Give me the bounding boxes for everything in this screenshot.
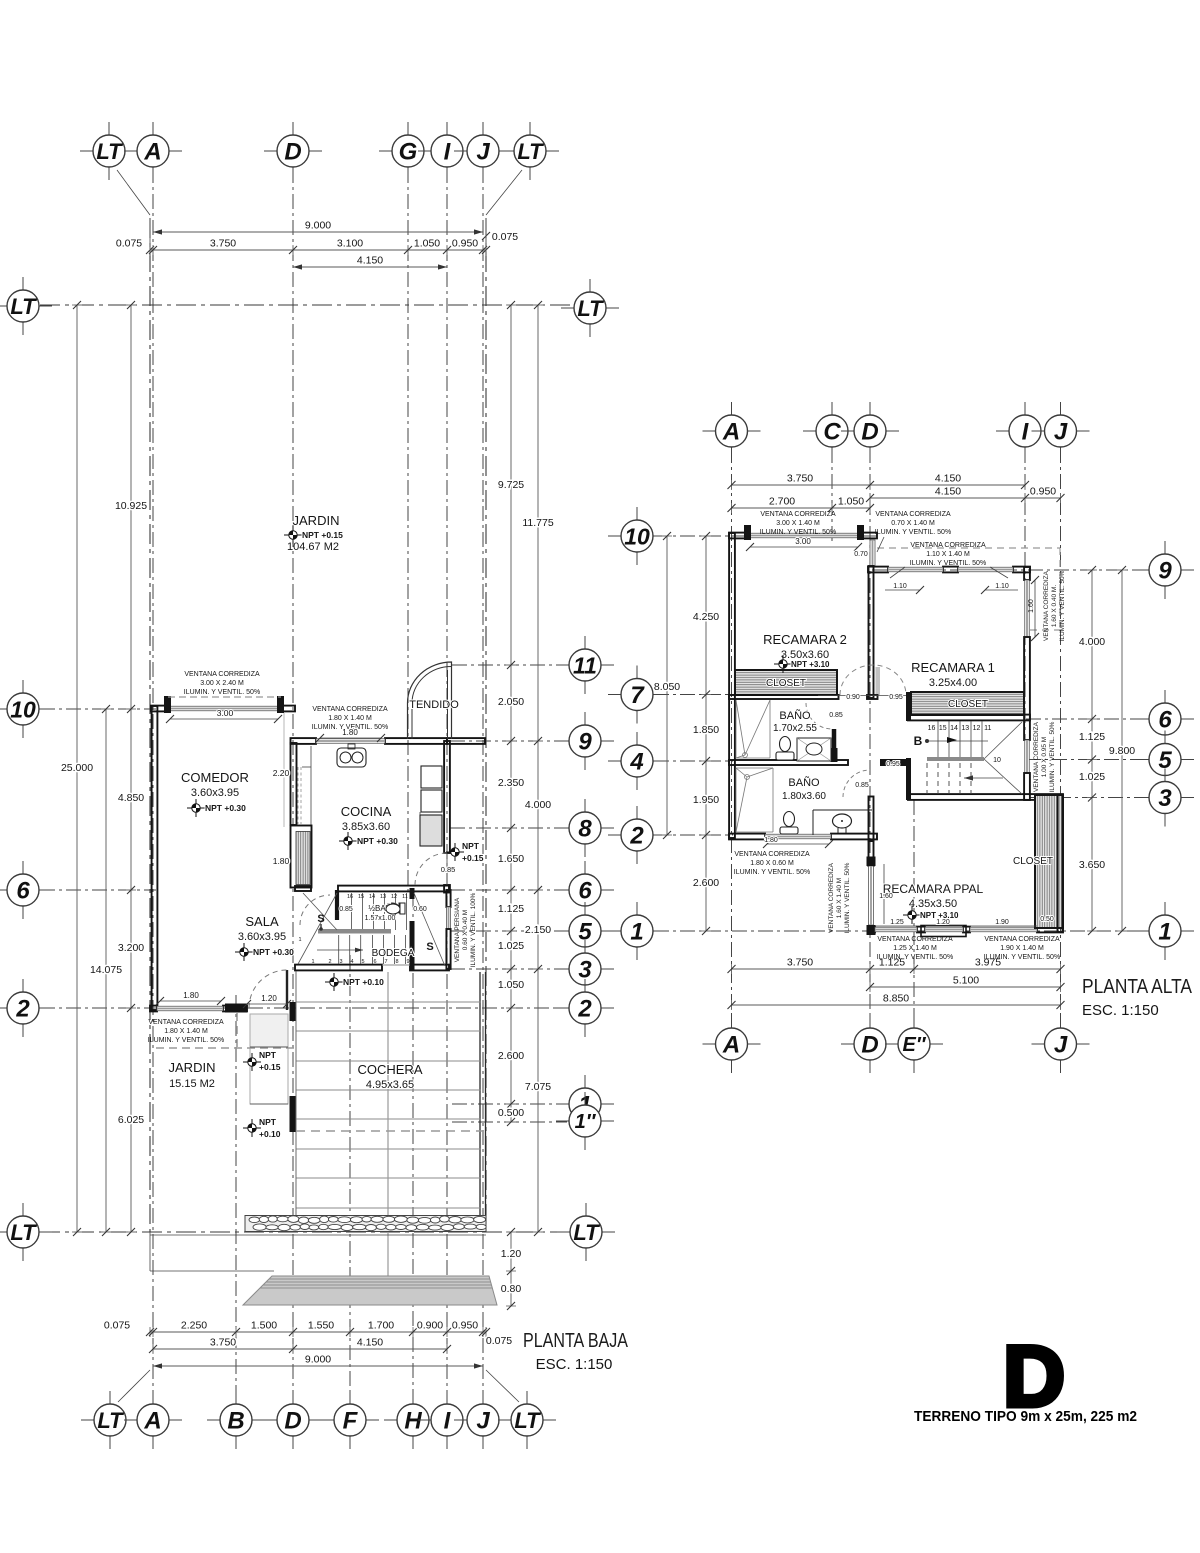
svg-text:1.20: 1.20 [936, 919, 950, 926]
svg-text:1.80: 1.80 [183, 991, 199, 1000]
grid bubble LT top-left (PB) [108, 122, 110, 138]
svg-text:VENTANA CORREDIZA: VENTANA CORREDIZA [734, 851, 810, 858]
bodega cross brace (PB) [414, 893, 445, 966]
svg-text:7: 7 [384, 959, 387, 965]
svg-text:VENTANA CORREDIZA: VENTANA CORREDIZA [312, 706, 388, 713]
grid bubble 1 right (PB) [584, 1075, 586, 1091]
grid bubble 2 left (PA) [636, 806, 638, 822]
svg-text:1.80 X 0.60 M: 1.80 X 0.60 M [750, 860, 794, 867]
svg-text:NPT: NPT [259, 1050, 277, 1060]
wall cocina east at I (PB) [444, 741, 450, 853]
grid row 10 (PA) [654, 535, 880, 537]
svg-text:RECAMARA 1: RECAMARA 1 [911, 660, 995, 675]
dimension 9.000 bottom (PB) [153, 1365, 483, 1367]
svg-text:11: 11 [984, 725, 991, 732]
svg-text:2.700: 2.700 [769, 496, 795, 508]
svg-text:D: D [861, 1032, 878, 1059]
svg-text:13: 13 [961, 725, 969, 732]
grid row 4 (PA) [654, 760, 733, 762]
grid axis D (PB) [292, 168, 294, 1404]
lot boundary left (PB) [149, 218, 151, 1232]
dimension chain left outer (PA) [666, 536, 668, 835]
svg-text:BODEGA: BODEGA [372, 948, 415, 959]
svg-text:1.050: 1.050 [838, 496, 864, 508]
svg-text:1.80: 1.80 [764, 837, 778, 844]
grid bubble F bottom (PB) [349, 1391, 351, 1407]
grid bubble 9 right (PA) [1164, 541, 1166, 557]
svg-text:NPT +0.30: NPT +0.30 [205, 803, 246, 813]
grid bubble B bottom (PB) [235, 1391, 237, 1407]
svg-text:NPT +0.30: NPT +0.30 [357, 836, 398, 846]
svg-text:1.80x3.60: 1.80x3.60 [782, 791, 826, 802]
svg-text:11.775: 11.775 [522, 517, 553, 529]
kitchen counter line (PB) [419, 812, 421, 815]
svg-text:1: 1 [311, 959, 314, 965]
dimension chain left inner (PA) [705, 536, 707, 931]
dimension chain right inner (PA) [1091, 570, 1093, 931]
cochera east wall double line (PB) [479, 972, 481, 1231]
svg-text:E″: E″ [903, 1034, 927, 1056]
svg-text:VENTANA CORREDIZA: VENTANA CORREDIZA [184, 671, 260, 678]
svg-text:8: 8 [578, 816, 592, 843]
wall sala south row2 (PB) [150, 1006, 157, 1012]
svg-text:2.050: 2.050 [498, 696, 524, 708]
svg-text:VENTANA PERSIANA: VENTANA PERSIANA [454, 897, 461, 962]
grid bubble LT row bottom left (PB) [22, 1203, 24, 1219]
dimension 4.150 top (PB) [293, 266, 447, 268]
dimension 9.000 top (PB) [153, 231, 483, 233]
svg-text:6.025: 6.025 [118, 1114, 144, 1126]
svg-text:4: 4 [350, 959, 353, 965]
svg-text:CLOSET: CLOSET [1013, 856, 1053, 867]
svg-text:3.60x3.95: 3.60x3.95 [238, 931, 286, 943]
svg-text:14.075: 14.075 [90, 964, 122, 976]
level marker NPT +0.15 cocina east (PB) [446, 843, 464, 861]
svg-text:1.80: 1.80 [342, 728, 358, 737]
grid bubble 8 right (PB) [584, 799, 586, 815]
grid bubble 1 left (PA) [636, 902, 638, 918]
svg-text:C: C [823, 419, 841, 446]
kitchen refrigerator (PB) [421, 766, 442, 788]
wall row2 bath2 south (PA) [729, 834, 765, 840]
svg-text:3.750: 3.750 [210, 238, 236, 250]
grid axis C (PA) [831, 448, 833, 545]
svg-text:2.150: 2.150 [525, 924, 551, 936]
grid row 3 (PA) [1030, 797, 1148, 799]
grid bubble 5 right (PA) [1164, 731, 1166, 747]
svg-text:0.70 X 1.40 M: 0.70 X 1.40 M [891, 520, 935, 527]
svg-text:LT: LT [517, 139, 544, 164]
svg-text:VENTANA CORREDIZA: VENTANA CORREDIZA [760, 511, 836, 518]
svg-text:S: S [426, 941, 433, 953]
grid bubble J bottom (PB) [482, 1391, 484, 1407]
grid bubble 3 right (PB) [584, 940, 586, 956]
grid row 10 (PB) [40, 708, 156, 710]
half-bath door swing dashed (PB) [300, 895, 330, 925]
svg-text:2.600: 2.600 [693, 877, 719, 889]
svg-text:LT: LT [10, 294, 37, 319]
svg-text:6: 6 [578, 878, 592, 905]
closet recamara1 hatched (PA) [911, 692, 1024, 715]
grid row 9 (PB) [450, 740, 567, 742]
svg-text:ILUMIN. Y VENTIL. 50%: ILUMIN. Y VENTIL. 50% [184, 689, 260, 696]
svg-text:10: 10 [624, 523, 650, 549]
svg-text:NPT +0.30: NPT +0.30 [253, 947, 294, 957]
leader LT bottom-right (PB) [486, 1370, 519, 1402]
grid axis I (PA) [1024, 448, 1026, 770]
svg-text:LT: LT [10, 1220, 37, 1245]
svg-text:1″: 1″ [575, 1111, 597, 1133]
wall row6 stair north (PA) [908, 715, 1030, 721]
svg-text:1.00 X 0.95 M: 1.00 X 0.95 M [1041, 737, 1048, 777]
wall tendido south (PB) [447, 738, 485, 744]
svg-text:1.60 X 1.40 M: 1.60 X 1.40 M [836, 878, 843, 918]
level marker NPT +0.10 bodega (PB) [325, 973, 343, 991]
svg-text:1.60 X 0.40 M.: 1.60 X 0.40 M. [1051, 585, 1058, 627]
window cocina north 1.80x1.40 (PB) [316, 739, 385, 744]
grid row 7 (PA) [654, 694, 737, 696]
grid axis A (PA) [731, 448, 733, 1027]
svg-text:JARDIN: JARDIN [169, 1060, 216, 1075]
svg-text:1.025: 1.025 [1079, 771, 1105, 783]
svg-text:VENTANA CORREDIZA: VENTANA CORREDIZA [148, 1019, 224, 1026]
svg-text:LT: LT [577, 296, 604, 321]
window recamara2 north 3.00x1.40 (PA) [750, 533, 858, 538]
svg-text:CLOSET: CLOSET [948, 699, 988, 710]
grid bubble 7 left (PA) [636, 666, 638, 682]
wall row6 stairs north (PB) [295, 886, 311, 891]
dimension chain top (PB) [150, 249, 486, 251]
grid bubble LT bottom-left (PB) [109, 1391, 111, 1407]
svg-text:VENTANA CORREDIZA: VENTANA CORREDIZA [877, 936, 953, 943]
svg-text:J: J [476, 1408, 490, 1435]
svg-text:3.00: 3.00 [217, 708, 234, 718]
lot boundary right (PB) [485, 218, 487, 1232]
svg-text:1.050: 1.050 [498, 979, 524, 991]
svg-text:1.57x1.00: 1.57x1.00 [365, 915, 396, 922]
svg-text:VENTANA CORREDIZA: VENTANA CORREDIZA [984, 936, 1060, 943]
grid bubble 5 right (PB) [584, 902, 586, 918]
window comedor north 3.00x2.40 (PB) [170, 706, 278, 711]
svg-text:4.150: 4.150 [357, 255, 383, 267]
toilet bath2 (PA) [784, 812, 795, 827]
dimension chain right outer (PA) [1121, 570, 1123, 931]
grid axis H (PB) [412, 895, 414, 1404]
svg-text:1: 1 [630, 919, 643, 946]
dimension 8.850 bottom (PA) [732, 1004, 1061, 1006]
dim 3.00 recamara2 window (PA) [750, 546, 858, 548]
svg-text:0.95: 0.95 [889, 694, 903, 701]
wall east below window (PA) [1024, 637, 1030, 740]
wall bodega divider at H (PB) [410, 888, 415, 899]
wall recamara2 north (PA) [729, 533, 750, 539]
svg-text:1.25: 1.25 [890, 919, 904, 926]
svg-text:CLOSET: CLOSET [766, 678, 806, 689]
svg-text:5: 5 [361, 959, 364, 965]
svg-text:ILUMIN. Y VENTIL. 50%: ILUMIN. Y VENTIL. 50% [1059, 570, 1066, 641]
svg-text:0.85: 0.85 [339, 906, 353, 913]
wall west exterior (PA) [729, 533, 735, 838]
svg-text:7: 7 [630, 682, 645, 709]
stone paving band (PB) [245, 1216, 486, 1232]
svg-text:1.80 X 1.40 M: 1.80 X 1.40 M [164, 1028, 208, 1035]
grid bubble D top (PA) [869, 402, 871, 418]
svg-text:1: 1 [1158, 919, 1171, 946]
grid bubble D bottom (PA) [869, 1015, 871, 1031]
svg-text:4.250: 4.250 [693, 611, 719, 623]
grid axis E-prime (PA) [913, 800, 915, 1027]
grid bubble 9 right (PB) [584, 712, 586, 728]
grid axis J (PA) [1060, 448, 1062, 1027]
dimension 1.20 sala door (PB) [247, 1003, 287, 1005]
grid bubble 2 right (PB) [584, 979, 586, 995]
svg-text:1.125: 1.125 [498, 903, 524, 915]
svg-text:1.050: 1.050 [414, 238, 440, 250]
dimension chain right street (PB) [510, 1232, 512, 1306]
svg-text:+0.10: +0.10 [259, 1129, 281, 1139]
svg-text:H: H [404, 1408, 422, 1435]
svg-text:3.200: 3.200 [118, 942, 144, 954]
svg-text:0.70: 0.70 [854, 551, 868, 558]
grid row 8 (PB) [450, 827, 567, 829]
svg-text:NPT +3.10: NPT +3.10 [791, 660, 830, 669]
svg-text:1.10: 1.10 [893, 583, 907, 590]
svg-text:8.850: 8.850 [883, 993, 909, 1005]
svg-text:VENTANA CORREDIZA: VENTANA CORREDIZA [875, 511, 951, 518]
svg-text:1: 1 [298, 937, 301, 943]
svg-text:1.850: 1.850 [693, 724, 719, 736]
svg-text:12: 12 [391, 894, 397, 900]
stair direction arrow (PB) [317, 949, 363, 951]
grid bubble LT bottom-right (PB) [526, 1391, 528, 1407]
svg-text:3.750: 3.750 [787, 473, 813, 485]
svg-text:F: F [343, 1408, 359, 1435]
wall stairs south row3 (PB) [295, 965, 382, 971]
svg-text:3: 3 [339, 959, 342, 965]
grid bubble H bottom (PB) [412, 1391, 414, 1407]
svg-text:15: 15 [358, 894, 364, 900]
dimension 25.000 left (PB) [76, 305, 78, 1232]
wall east recppal (PA) [1058, 795, 1063, 932]
grid bubble J top (PB) [482, 122, 484, 138]
door jamb sala south (PB) [225, 1004, 247, 1013]
leader LT top-left (PB) [117, 170, 150, 215]
grid bubble A top (PA) [731, 402, 733, 418]
svg-text:PLANTA ALTA: PLANTA ALTA [1082, 976, 1193, 998]
svg-text:10.925: 10.925 [115, 500, 147, 512]
grid bubble I top (PA) [1024, 402, 1026, 418]
grid bubble C top (PA) [831, 402, 833, 418]
grid bubble G top (PB) [407, 122, 409, 138]
svg-text:1.90: 1.90 [995, 919, 1009, 926]
shower bath2 (PA) [736, 768, 747, 777]
stair break line (PB) [298, 893, 337, 964]
grid bubble E-prime bottom (PA) [913, 1015, 915, 1031]
svg-text:0.50: 0.50 [1040, 916, 1054, 923]
grid bubble I bottom (PB) [446, 1391, 448, 1407]
svg-text:ILUMIN. Y VENTIL. 50%: ILUMIN. Y VENTIL. 50% [760, 529, 836, 536]
svg-text:0.90: 0.90 [846, 694, 860, 701]
svg-text:4: 4 [629, 749, 643, 776]
svg-text:1.025: 1.025 [498, 940, 524, 952]
stair landing bar (PB) [318, 929, 391, 934]
svg-text:PLANTA BAJA: PLANTA BAJA [523, 1330, 629, 1352]
svg-text:3.00: 3.00 [795, 537, 811, 546]
windows recppal south 1.25 1.20 1.90 (PA) [875, 927, 917, 932]
svg-text:COMEDOR: COMEDOR [181, 770, 249, 785]
svg-text:RECAMARA 2: RECAMARA 2 [763, 632, 847, 647]
svg-text:0.075: 0.075 [486, 1335, 512, 1347]
svg-text:3.00 X 2.40 M: 3.00 X 2.40 M [200, 680, 244, 687]
driveway ramp (PB) [243, 1276, 497, 1305]
svg-text:COCHERA: COCHERA [357, 1062, 422, 1077]
grid row 5 (PB) [450, 930, 567, 932]
svg-text:7.075: 7.075 [525, 1081, 551, 1093]
wall corridor-closet divider (PA) [906, 692, 911, 721]
wall recamara1 east (PA) [1024, 567, 1030, 580]
dimension 3.750 4.150 bottom (PB) [153, 1348, 447, 1350]
roof overhang dashed (PA) [877, 547, 1060, 549]
stair treads upper run (PB) [351, 893, 353, 930]
svg-text:0.950: 0.950 [1030, 486, 1056, 498]
bar counter hatched at D (PB) [291, 826, 312, 888]
wall recppal west at D (PA) [869, 841, 874, 866]
dimension 2.20 and 1.80 at D wall (PB) [283, 713, 285, 827]
svg-text:ILUMIN. Y VENTIL. 50%: ILUMIN. Y VENTIL. 50% [1049, 721, 1056, 792]
grid row 6 right (PB) [450, 889, 567, 891]
svg-text:15.15 M2: 15.15 M2 [169, 1078, 215, 1090]
toilet half-bath (PB) [385, 903, 399, 913]
stair treads upper (PA) [937, 721, 939, 757]
svg-text:1.500: 1.500 [251, 1320, 277, 1332]
svg-text:LT: LT [573, 1220, 600, 1245]
svg-text:3.85x3.60: 3.85x3.60 [342, 821, 390, 833]
grid bubble 6 left (PB) [22, 861, 24, 877]
svg-text:1.80: 1.80 [273, 856, 290, 866]
grid axis I (PB) [446, 168, 448, 1404]
grid bubble 4 left (PA) [636, 732, 638, 748]
svg-text:BAÑO: BAÑO [779, 709, 811, 722]
svg-text:3.750: 3.750 [787, 957, 813, 969]
svg-text:BAÑO: BAÑO [788, 776, 820, 789]
stair treads lower run (PB) [338, 935, 340, 964]
svg-text:6: 6 [16, 878, 30, 905]
svg-text:B: B [227, 1408, 244, 1435]
svg-text:4.150: 4.150 [935, 473, 961, 485]
wall cocina north (PB) [291, 738, 317, 744]
svg-text:0.500: 0.500 [498, 1107, 524, 1119]
kitchen sink (PB) [337, 748, 366, 767]
dim 1.60 recppal west (PA) [883, 864, 885, 924]
svg-text:1.700: 1.700 [368, 1320, 394, 1332]
svg-text:1.125: 1.125 [1079, 731, 1105, 743]
svg-text:9: 9 [578, 729, 592, 756]
wall bath1 east (PA) [832, 729, 837, 748]
svg-text:4.150: 4.150 [935, 486, 961, 498]
grid bubble LT row top right (PB) [589, 279, 591, 295]
svg-text:LT: LT [96, 139, 123, 164]
svg-text:1.10 X 1.40 M: 1.10 X 1.40 M [926, 551, 970, 558]
svg-text:ILUMIN. Y VENTIL. 50%: ILUMIN. Y VENTIL. 50% [734, 869, 810, 876]
grid axis D (PA) [869, 448, 871, 1027]
svg-text:VENTANA CORREDIZA: VENTANA CORREDIZA [1033, 721, 1040, 792]
svg-text:2.250: 2.250 [181, 1320, 207, 1332]
dimension chain bottom (PB) [150, 1331, 486, 1333]
svg-text:NPT +0.10: NPT +0.10 [343, 977, 384, 987]
grid bubble A bottom (PA) [731, 1015, 733, 1031]
dims recppal south windows (PA) [875, 925, 917, 927]
svg-text:4.000: 4.000 [525, 799, 551, 811]
svg-text:3.25x4.00: 3.25x4.00 [929, 677, 977, 689]
svg-text:RECAMARA PPAL: RECAMARA PPAL [883, 882, 984, 896]
svg-text:ESC. 1:150: ESC. 1:150 [1082, 1002, 1159, 1019]
svg-text:ILUMIN. Y VENTIL. 50%: ILUMIN. Y VENTIL. 50% [984, 954, 1060, 961]
grid bubble 11 right (PB) [584, 636, 586, 652]
dimension chain right inner (PB) [510, 305, 512, 1122]
grid bubble D top (PB) [292, 122, 294, 138]
svg-text:A: A [143, 1408, 161, 1435]
lot line LT bottom (PB) [40, 1231, 569, 1233]
svg-text:J: J [1054, 419, 1068, 446]
wall comedor-cocina divider at D (PB) [291, 743, 297, 825]
wall east stair (PA) [1024, 773, 1030, 800]
svg-text:10: 10 [993, 757, 1001, 764]
svg-text:NPT: NPT [259, 1117, 277, 1127]
sliding window leaves at D wall (PB) [297, 767, 299, 824]
wall row3 stair south (PA) [908, 794, 1063, 800]
svg-text:3.100: 3.100 [337, 238, 363, 250]
grid bubble A top (PB) [152, 122, 154, 138]
grid axis G (PB) [407, 168, 409, 895]
tendido enclosure curved wall [408, 662, 452, 739]
dimension chain left (PB) [130, 305, 132, 1232]
svg-text:1.80 X 1.40 M: 1.80 X 1.40 M [328, 715, 372, 722]
svg-text:J: J [476, 139, 490, 166]
svg-text:3.00 X 1.40 M: 3.00 X 1.40 M [776, 520, 820, 527]
svg-text:8.050: 8.050 [654, 681, 680, 693]
svg-text:2: 2 [577, 996, 592, 1023]
svg-text:VENTANA CORREDIZA: VENTANA CORREDIZA [828, 862, 835, 933]
svg-text:NPT: NPT [462, 841, 480, 851]
grid bubble 6 right (PB) [584, 861, 586, 877]
svg-text:104.67 M2: 104.67 M2 [287, 541, 339, 553]
stair landing bar (PA) [927, 757, 984, 761]
svg-text:A: A [143, 139, 161, 166]
svg-text:2: 2 [15, 996, 30, 1023]
svg-text:TERRENO TIPO 9m x 25m, 225 m2: TERRENO TIPO 9m x 25m, 225 m2 [914, 1408, 1137, 1425]
grid bubble D bottom (PB) [292, 1391, 294, 1407]
svg-text:6: 6 [1158, 707, 1172, 734]
svg-text:13: 13 [380, 894, 386, 900]
level marker NPT +0.10 porch (PB) [243, 1119, 261, 1137]
svg-text:15: 15 [939, 725, 947, 732]
roof overhang dashed above comedor window (PB) [168, 696, 281, 698]
svg-text:+0.15: +0.15 [462, 853, 484, 863]
grid bubble I top (PB) [446, 122, 448, 138]
svg-text:5.100: 5.100 [953, 975, 979, 987]
grid bubble 6 right (PA) [1164, 690, 1166, 706]
vanity bath2 (PA) [813, 809, 872, 811]
corridor reference line row7 (PA) [818, 695, 908, 697]
cochera roof overhang dashed (PB) [296, 1130, 483, 1132]
svg-text:0.60 X 0.40 M: 0.60 X 0.40 M [462, 910, 469, 950]
dims 1.10 windows (PA) [885, 589, 920, 591]
door bath1 swing dashed (PA) [806, 703, 832, 729]
svg-text:2: 2 [629, 823, 644, 850]
svg-text:0.075: 0.075 [492, 231, 518, 243]
grid row 9 (PA) [872, 569, 1148, 571]
svg-text:1.20: 1.20 [501, 1248, 522, 1260]
